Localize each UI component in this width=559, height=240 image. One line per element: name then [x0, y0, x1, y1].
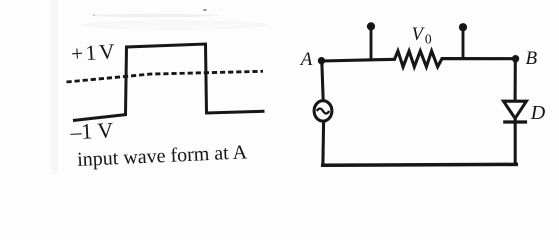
svg-text:A: A	[299, 49, 313, 70]
svg-text:0: 0	[425, 31, 432, 46]
svg-text:B: B	[526, 48, 538, 69]
svg-text:–1 V: –1 V	[69, 117, 114, 144]
svg-text:+1V: +1V	[70, 39, 115, 66]
svg-text:V: V	[412, 25, 426, 45]
svg-text:input wave form at A: input wave form at A	[77, 141, 248, 171]
svg-text:D: D	[530, 102, 546, 124]
